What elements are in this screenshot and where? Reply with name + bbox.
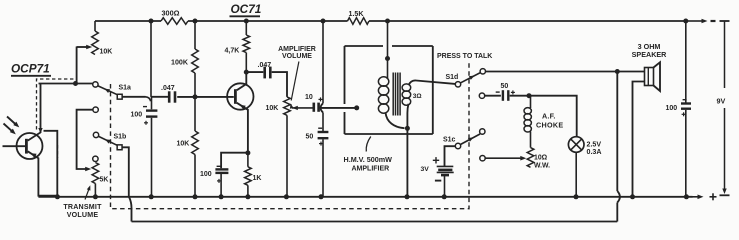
capacitor C6 50uF decoupling with crossover hop [318, 21, 329, 197]
node amplifier input terminal [354, 105, 359, 110]
label 10 ohm W.W. [534, 154, 550, 169]
svg-text:S1d: S1d [446, 74, 459, 81]
capacitor C1 .047 input [169, 91, 175, 102]
svg-text:AMPLIFIER: AMPLIFIER [352, 166, 390, 173]
wire collector branch to left rail [44, 131, 58, 196]
potentiometer VR1 5K body [92, 163, 99, 197]
switch S1c arm [460, 134, 480, 145]
node bottom-rail junction speaker [630, 194, 635, 199]
node bottom-rail junction divider [193, 194, 198, 199]
node transformer primary terminal [385, 56, 390, 61]
wire collector to C4 [246, 71, 263, 73]
wire S1c lower contact to VR3 wiper [485, 156, 526, 161]
svg-text:9V: 9V [717, 96, 726, 105]
switch S1c lower contact [480, 156, 485, 161]
node top-rail junction x151 [149, 19, 154, 24]
node bottom-rail junction 100uF [149, 194, 154, 199]
transistor Q2 emitter lead with PNP arrow [237, 103, 248, 153]
wire C5 to amplifier input [320, 107, 357, 109]
wire long lower return [132, 221, 618, 223]
switch S1a throw contact [117, 94, 122, 99]
wire mic node vertical from rail [150, 21, 152, 97]
resistor 300 ohm [161, 18, 188, 25]
switch S1a arm [98, 86, 117, 95]
node junction wiper/collector [73, 81, 78, 86]
svg-text:S1b: S1b [114, 133, 127, 140]
switch S1c wiper contact [455, 143, 460, 148]
potentiometer VR2 10K amplifier volume [284, 97, 291, 197]
svg-text:S1a: S1a [119, 85, 132, 92]
node bottom-rail junction 100uF2 [219, 194, 224, 199]
label - (battery bottom) [435, 180, 441, 182]
resistor R1 10K preset [92, 21, 99, 55]
label 4.7K (R4) [225, 47, 240, 54]
switch linkage dashed line S1a-S1b-S1c-S1d [111, 62, 470, 209]
label 10K (R1) [100, 49, 113, 56]
svg-text:10Ω: 10Ω [534, 154, 548, 161]
wire S1a throw to mic node [122, 97, 168, 102]
wire contact to 5K pot wiper [77, 110, 93, 172]
svg-text:SPEAKER: SPEAKER [632, 50, 668, 59]
label 2.5V 0.3A [587, 140, 602, 156]
svg-text:OCP71: OCP71 [11, 62, 50, 76]
label 3V [421, 166, 430, 173]
label 10K (VR2) [266, 105, 279, 112]
node top-rail junction x323 [321, 19, 326, 24]
svg-text:10K: 10K [177, 140, 190, 147]
svg-text:4,7K: 4,7K [225, 47, 240, 54]
node bottom-rail junction battery 3V [442, 194, 447, 199]
switch S1d lower contact [479, 93, 484, 98]
wire emitter to C3 [221, 153, 248, 169]
transistor Q2 OC71 envelope [227, 83, 253, 109]
switch S1b arm [99, 136, 118, 145]
label 100 (C8) [666, 105, 678, 112]
label 100 (C2) [131, 111, 143, 118]
svg-text:10: 10 [305, 94, 313, 101]
label 300 ohm [162, 9, 180, 18]
node top-rail junction x195 [193, 19, 198, 24]
node transformer common terminal [405, 126, 410, 131]
resistor R3 10K [192, 97, 199, 197]
svg-text:S1c: S1c [443, 136, 456, 143]
svg-text:A.F.: A.F. [542, 111, 556, 120]
node bottom-rail junction 100uF4 [684, 194, 689, 199]
svg-text:TRANSMIT: TRANSMIT [63, 203, 102, 211]
label .047 (C1) [161, 85, 175, 92]
switch S1d throw contact [480, 69, 485, 74]
wire S1d throw to speaker [486, 71, 645, 73]
label 100 (C3) [200, 171, 212, 178]
wire jog from bottom rail down to lower return wire [129, 197, 132, 222]
wire VR2 wiper to C5 [292, 106, 313, 110]
capacitor C5 10uF coupling [314, 97, 323, 111]
label 9V [717, 96, 726, 105]
resistor R5 1K [245, 153, 252, 197]
label 10 (C5) [305, 94, 313, 101]
screening can dashed box around OCP71 [37, 79, 75, 158]
svg-text:3Ω: 3Ω [413, 93, 422, 100]
transistor Q1 collector lead [28, 84, 43, 141]
svg-text:PRESS TO TALK: PRESS TO TALK [437, 53, 492, 60]
node top-rail junction x685.8 [683, 19, 688, 24]
inductor L1 A.F. choke [524, 96, 531, 148]
label OC71 [230, 2, 262, 16]
label TRANSMIT VOLUME [63, 185, 102, 219]
label 10K (R3) [177, 140, 190, 147]
switch S1d arm [460, 73, 480, 83]
label 100K (R2) [171, 59, 189, 67]
node junction base node x195 [193, 94, 198, 99]
svg-text:100: 100 [200, 171, 212, 178]
resistor R4 4.7K [243, 21, 250, 72]
resistor R2 100K [192, 21, 199, 97]
resistor 1.5K [348, 18, 370, 25]
node junction collector/output [244, 70, 249, 75]
svg-text:100K: 100K [171, 59, 189, 67]
node bottom-rail junction 5K pot [93, 194, 98, 199]
label 3 ohm secondary [413, 93, 422, 100]
wire S1c wiper to battery [445, 146, 456, 166]
svg-text:0.3A: 0.3A [587, 148, 602, 156]
amplifier block U1 box [345, 46, 433, 134]
wire secondary bottom to rail [407, 104, 408, 197]
label PRESS TO TALK [437, 53, 492, 60]
label OCP71 [11, 62, 51, 76]
wire primary bottom to common [386, 113, 405, 129]
svg-text:5K: 5K [100, 177, 109, 184]
label + (battery top) [433, 157, 439, 163]
node bottom-rail junction transformer [405, 194, 410, 199]
svg-text:CHOKE: CHOKE [536, 120, 563, 129]
svg-text:.047: .047 [161, 85, 175, 92]
label H.M.V. 500mW AMPLIFIER [344, 137, 393, 173]
light arrows into OCP71 [4, 117, 20, 135]
node junction emitter [245, 150, 250, 155]
label AMPLIFIER VOLUME [278, 46, 316, 109]
node top-rail junction x246.5 [244, 19, 249, 24]
svg-text:10K: 10K [266, 105, 279, 112]
wire S1b throw to bottom rail [122, 147, 129, 197]
potentiometer VR3 10 ohm wirewound [527, 148, 534, 168]
node bottom-rail junction bulb [574, 194, 579, 199]
speaker LS1 [645, 62, 661, 91]
wire top supply rail [95, 20, 686, 22]
wire S1d lower contact to C7 [485, 95, 501, 97]
svg-text:3V: 3V [421, 166, 430, 173]
svg-text:.047: .047 [258, 62, 272, 69]
transistor Q1 base bar [25, 139, 28, 154]
node junction choke tap [527, 93, 532, 98]
svg-text:VOLUME: VOLUME [282, 53, 312, 60]
svg-text:VOLUME: VOLUME [67, 211, 99, 219]
switch S1a wiper contact [93, 82, 98, 87]
label 5K [100, 177, 109, 184]
label 1.5K [349, 10, 365, 18]
node bottom-rail junction emitter/can [55, 194, 60, 199]
svg-text:H.M.V. 500mW: H.M.V. 500mW [344, 155, 393, 164]
svg-text:100: 100 [666, 105, 678, 112]
svg-text:300Ω: 300Ω [162, 9, 180, 18]
label 50 (C7) [501, 83, 509, 90]
svg-text:10K: 10K [100, 49, 113, 56]
transformer T1 core [393, 73, 400, 116]
wire return riser with hop over rail [617, 72, 620, 222]
switch S1d wiper contact [455, 82, 460, 87]
node bottom-rail junction 1K [245, 194, 250, 199]
switch contact (5K wiper feed) [93, 107, 98, 112]
transistor Q2 collector lead [237, 72, 247, 90]
wire bottom rail [38, 196, 692, 198]
switch S1c throw contact [480, 129, 485, 134]
svg-text:50: 50 [501, 83, 509, 90]
battery 9V negative terminal top [687, 19, 730, 88]
node bottom-rail junction pot [284, 194, 289, 199]
capacitor C3 100uF emitter bypass [215, 166, 228, 197]
transistor Q1 base lead [3, 145, 26, 147]
label S1d [446, 74, 459, 81]
wire R1 wiper to collector line [77, 45, 93, 84]
wire C7 to bulb corner [510, 96, 577, 137]
transformer T1 primary winding [378, 77, 388, 113]
wire speaker return [633, 82, 645, 197]
svg-text:1.5K: 1.5K [349, 10, 365, 18]
wire C4 to volume pot [272, 72, 287, 97]
svg-text:50: 50 [306, 133, 314, 140]
potentiometer VR1 5K top contact [93, 156, 98, 161]
label S1c [443, 136, 456, 143]
transformer T1 secondary winding [402, 84, 411, 105]
svg-text:1K: 1K [253, 175, 262, 182]
label 3 OHM SPEAKER [632, 42, 668, 59]
capacitor C8 100uF output [681, 21, 691, 197]
svg-text:100: 100 [131, 111, 143, 118]
node top-rail junction x387.5 [385, 19, 390, 24]
label S1b [114, 133, 127, 140]
switch S1b throw contact [117, 145, 122, 150]
switch S1b wiper contact [93, 132, 98, 137]
node junction return-to-speaker wire [615, 69, 620, 74]
capacitor C2 100uF decoupling [143, 97, 157, 197]
svg-text:W.W.: W.W. [534, 162, 550, 169]
svg-text:AMPLIFIER: AMPLIFIER [278, 46, 316, 53]
transistor Q2 base bar [234, 89, 237, 104]
battery 9V positive terminal bottom [692, 108, 730, 200]
wire secondary top to S1d [409, 80, 456, 85]
wire C1 to base node [177, 96, 234, 98]
lamp LP1 2.5V 0.3A [568, 137, 584, 197]
node bottom-rail junction 50uF [319, 194, 324, 199]
capacitor C4 .047 output [265, 67, 271, 79]
label .047 (C4) [258, 62, 272, 69]
label 1K (R5) [253, 175, 262, 182]
label A.F. CHOKE [536, 111, 563, 129]
transistor Q1 OCP71 envelope [17, 133, 43, 159]
svg-text:OC71: OC71 [231, 2, 262, 16]
wire primary feed from rail [387, 21, 389, 79]
transistor Q1 emitter lead with PNP arrow [28, 151, 58, 195]
capacitor C7 50uF [496, 90, 515, 101]
battery B1 3V [437, 166, 454, 196]
label S1a [119, 85, 132, 92]
wire collector line to S1a [39, 83, 93, 85]
label 50 (C6) [306, 133, 314, 140]
